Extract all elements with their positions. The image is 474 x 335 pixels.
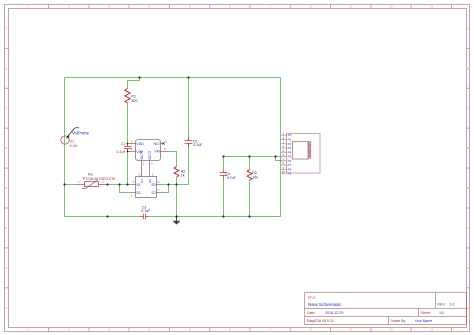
wire RE pin2 to switch S1 bbox=[108, 184, 132, 186]
svg-text:G2: G2 bbox=[148, 179, 152, 183]
svg-text:300: 300 bbox=[131, 99, 137, 103]
wire jog to lower S1 pin bbox=[120, 185, 132, 193]
svg-text:S2: S2 bbox=[151, 191, 155, 195]
svg-text:P3: P3 bbox=[288, 146, 292, 150]
svg-text:11: 11 bbox=[430, 5, 433, 9]
svg-text:11: 11 bbox=[430, 328, 433, 332]
svg-text:VDD: VDD bbox=[136, 142, 144, 146]
svg-text:E: E bbox=[467, 186, 469, 190]
svg-text:C: C bbox=[5, 106, 7, 110]
svg-text:P2: P2 bbox=[288, 142, 292, 146]
capacitor C2 bbox=[185, 137, 193, 147]
R3 labels bbox=[252, 171, 258, 179]
svg-text:EasyEDA V5.9.22: EasyEDA V5.9.22 bbox=[307, 319, 334, 323]
svg-text:10: 10 bbox=[390, 328, 394, 332]
svg-text:F: F bbox=[467, 226, 469, 230]
svg-text:A: A bbox=[5, 27, 7, 31]
svg-text:TITLE:: TITLE: bbox=[307, 296, 316, 300]
svg-text:C: C bbox=[467, 106, 469, 110]
svg-text:H: H bbox=[5, 306, 7, 310]
wire right rail bbox=[280, 78, 282, 217]
svg-text:D: D bbox=[467, 146, 469, 150]
svg-text:A: A bbox=[467, 27, 469, 31]
capacitor C1 bbox=[124, 143, 132, 152]
wire step to connector pin bbox=[276, 157, 282, 161]
C1 labels bbox=[117, 142, 127, 154]
RE pins bbox=[76, 184, 108, 186]
wire bottom rail right (net GND) bbox=[149, 216, 281, 218]
svg-text:E: E bbox=[5, 186, 7, 190]
R1 labels bbox=[131, 95, 137, 103]
junction dots bbox=[63, 76, 276, 217]
svg-text:Date:: Date: bbox=[307, 311, 315, 315]
svg-text:R3: R3 bbox=[252, 171, 257, 175]
svg-text:Sheet:: Sheet: bbox=[421, 311, 431, 315]
connector USB1 body bbox=[287, 134, 321, 174]
svg-text:V1: V1 bbox=[70, 139, 75, 143]
wire C1 to S1 net (VIN tap) bbox=[127, 149, 129, 185]
RE labels bbox=[83, 171, 115, 181]
svg-text:S1: S1 bbox=[136, 183, 140, 187]
svg-text:P1: P1 bbox=[288, 138, 292, 142]
connector USB1 pins bbox=[281, 135, 287, 174]
switch pins bbox=[132, 185, 161, 193]
wire top rail to C2 bbox=[188, 78, 190, 141]
svg-text:2018-12-29: 2018-12-29 bbox=[325, 311, 343, 315]
U1 pin names bbox=[136, 142, 160, 160]
resistor R3 bbox=[247, 170, 252, 181]
svg-text:VM: VM bbox=[154, 150, 159, 154]
svg-text:B: B bbox=[467, 66, 469, 70]
wire left rail to RE pin1 bbox=[65, 184, 76, 186]
U1 pin numbers bbox=[131, 140, 167, 166]
wire mid net to R3 bbox=[249, 157, 251, 170]
svg-text:P9: P9 bbox=[288, 172, 292, 176]
svg-text:S2: S2 bbox=[151, 183, 155, 187]
svg-text:0.1uF: 0.1uF bbox=[117, 150, 127, 154]
wire R3 to bottom rail bbox=[249, 181, 251, 217]
wire left rail bbox=[64, 78, 66, 217]
C2 labels bbox=[193, 140, 204, 148]
svg-text:PTC8L05T06YD7I0: PTC8L05T06YD7I0 bbox=[83, 177, 115, 181]
wire top rail bbox=[65, 77, 281, 79]
resistor R1 bbox=[125, 89, 130, 103]
wire S2 upper to C2 rail bbox=[161, 184, 189, 186]
V1 designator and value bbox=[70, 139, 78, 147]
svg-text:OUT1: OUT1 bbox=[140, 151, 144, 160]
C4 labels bbox=[225, 172, 236, 180]
wire S2 lower jog bbox=[161, 185, 169, 193]
svg-text:G1: G1 bbox=[140, 179, 144, 183]
svg-text:F: F bbox=[5, 226, 7, 230]
svg-text:P7: P7 bbox=[288, 163, 292, 167]
wire R1 to C1 (VDD tap) bbox=[127, 103, 129, 147]
svg-text:B: B bbox=[5, 66, 7, 70]
U1 no-connect cross bbox=[162, 142, 164, 144]
wire VM pin to R2 bbox=[171, 152, 177, 167]
svg-text:10: 10 bbox=[390, 5, 394, 9]
wire mid net to right rail bbox=[224, 156, 281, 158]
switch pin numbers bbox=[131, 173, 160, 198]
svg-text:NC!: NC! bbox=[154, 142, 160, 146]
svg-text:10: 10 bbox=[282, 170, 286, 174]
svg-text:P6: P6 bbox=[288, 159, 292, 163]
svg-text:4.4V: 4.4V bbox=[70, 144, 78, 148]
svg-text:P8: P8 bbox=[288, 167, 292, 171]
connector USB1 shield shape bbox=[293, 142, 311, 160]
svg-text:D: D bbox=[5, 146, 7, 150]
svg-text:1.0: 1.0 bbox=[450, 303, 455, 307]
wire C2 to S2 net bbox=[188, 144, 190, 185]
wire mid net to C4 bbox=[223, 157, 225, 170]
svg-text:R2: R2 bbox=[181, 169, 186, 173]
svg-text:H: H bbox=[467, 306, 469, 310]
wire R2 to ground rail bbox=[176, 178, 178, 217]
svg-text:C1: C1 bbox=[121, 142, 126, 146]
capacitor C3 bbox=[140, 214, 149, 220]
svg-text:R1: R1 bbox=[131, 95, 136, 99]
svg-text:1k: 1k bbox=[181, 174, 185, 178]
title block bbox=[305, 293, 467, 325]
wire C4 to bottom rail bbox=[223, 178, 225, 217]
switch pin names bbox=[136, 179, 155, 195]
thermistor RE (PTC) bbox=[82, 180, 99, 188]
svg-text:10k: 10k bbox=[252, 175, 258, 179]
RE pin numbers bbox=[78, 180, 104, 184]
svg-text:P0: P0 bbox=[288, 133, 292, 137]
svg-text:4.7uF: 4.7uF bbox=[227, 176, 237, 180]
svg-text:P5: P5 bbox=[288, 155, 292, 159]
svg-text:0.1uF: 0.1uF bbox=[193, 143, 203, 147]
svg-text:C4: C4 bbox=[225, 172, 230, 176]
svg-text:0.1uF: 0.1uF bbox=[141, 209, 151, 213]
C3 labels bbox=[141, 206, 151, 214]
U1 pins bbox=[128, 144, 171, 177]
svg-text:1/1: 1/1 bbox=[439, 311, 444, 315]
svg-text:S1: S1 bbox=[136, 191, 140, 195]
svg-text:OUT2: OUT2 bbox=[148, 151, 152, 160]
svg-text:Re: Re bbox=[88, 171, 93, 176]
svg-text:VolProbe: VolProbe bbox=[72, 130, 90, 135]
wire bottom rail left (net GND) bbox=[65, 216, 140, 218]
svg-text:Drawn By:: Drawn By: bbox=[391, 319, 407, 323]
capacitor C4 bbox=[220, 170, 228, 180]
svg-text:Your Name: Your Name bbox=[415, 319, 433, 323]
connector USB1 pin names bbox=[288, 133, 292, 176]
svg-text:P4: P4 bbox=[288, 150, 292, 154]
wire top rail to R1 bbox=[128, 78, 140, 89]
voltage source V1 with probe bbox=[61, 128, 79, 144]
resistor R2 bbox=[174, 167, 179, 178]
IC U1 body bbox=[136, 140, 161, 161]
connector USB1 pin numbers bbox=[282, 132, 286, 175]
motor/switch component body bbox=[136, 177, 157, 198]
svg-text:REV:: REV: bbox=[437, 303, 445, 307]
svg-text:New Schematic: New Schematic bbox=[308, 302, 342, 308]
R2 labels bbox=[181, 169, 186, 177]
ground bbox=[173, 217, 181, 225]
